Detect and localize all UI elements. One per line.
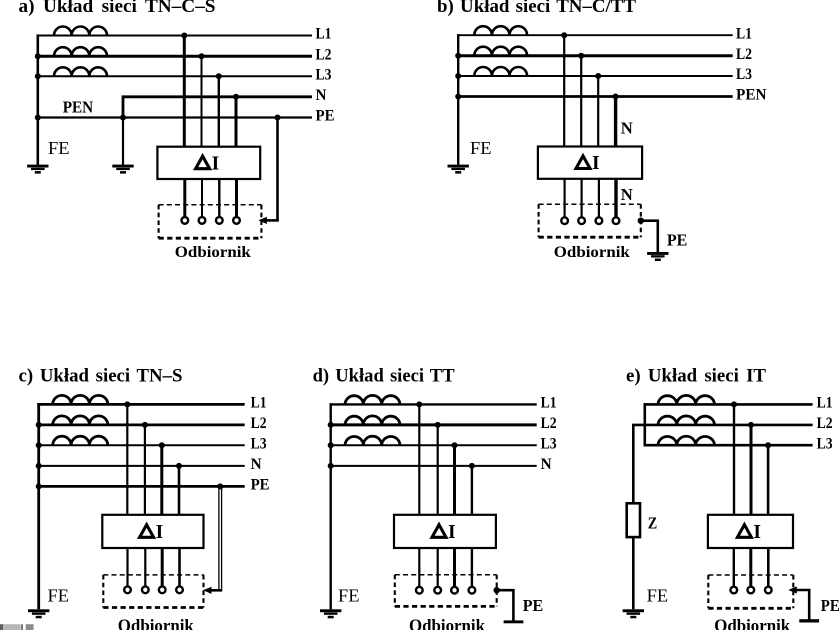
scan artifact tick 2 [26,624,34,630]
wire load lead 4 (d) [471,548,473,587]
wire PE to earth (b) [641,221,658,253]
terminal circle 3 (e) [765,587,772,594]
RCD symbol deltaI (e) [737,525,751,538]
wire L3 row (b) [457,75,733,77]
junction dot L2/left bus (a) [35,53,41,59]
wire: left bus vertical (d) [330,403,332,609]
wire L3 drop to RCD (c) [160,445,163,515]
RCD box dI (d) [394,515,496,548]
scan artifact tick 1 [21,624,23,630]
svg-text:Odbiornik: Odbiornik [554,244,630,261]
RCD box dI (c) [102,515,203,548]
wire load lead 3 (c) [161,548,164,586]
arrow PE into load (c) [203,587,212,594]
RCD symbol deltaI (c) [140,525,154,538]
wire load lead 4 (c) [178,548,181,586]
svg-text:I: I [448,522,456,543]
wire: star-point vertical (e) [643,403,646,445]
wire load lead 4 (b) [614,179,617,218]
ground symbol PEN (a) [112,165,133,174]
diagram b: Uklad sieci TN-C/TT [437,0,767,261]
RCD box dI (b) [538,147,642,179]
svg-text:N: N [621,119,634,138]
svg-text:L1: L1 [736,25,752,42]
winding L2 (d) [345,416,400,425]
wire: left bus vertical (b) [457,34,459,165]
wire load lead 3 (a) [218,179,220,217]
wire L3 drop to RCD (a) [218,76,220,146]
junction dot L3 tap (a) [216,73,222,79]
junction dot L1 tap (c) [124,401,130,407]
svg-text:L3: L3 [251,435,267,452]
wire load lead 3 (b) [598,179,600,218]
junction dot L2/left bus (d) [328,422,334,428]
svg-text:FE: FE [48,586,70,606]
svg-text:a) Układ sieci TN–C–S: a) Układ sieci TN–C–S [19,0,216,17]
wire L3 row (d) [330,444,537,446]
ground symbol FE (d) [320,609,341,618]
wire L2 drop to RCD (a) [201,56,203,147]
load dashed box Odbiornik (b) [539,204,641,237]
winding L2 (a) [54,47,107,56]
wire L2 drop to RCD (d) [437,425,439,515]
junction dot N tap (c) [176,463,182,469]
junction dot L2/left bus (b) [455,53,461,59]
terminal circle 4 (b) [613,217,620,224]
wire N drop to RCD (a) [235,97,238,147]
junction dot PE at load edge (b) [638,218,644,224]
terminal circle 2 (b) [578,217,585,224]
wire PE drop (a) [276,118,279,221]
svg-text:L1: L1 [817,395,833,412]
wire L2 drop to RCD (e) [750,425,753,515]
wire L1 drop to RCD (b) [563,35,565,146]
terminal circle 3 (a) [216,217,223,224]
wire load lead 4 (a) [235,179,238,217]
load dashed box Odbiornik (d) [395,575,497,607]
svg-text:I: I [212,153,220,174]
wire N row (d) [330,465,537,467]
svg-text:L3: L3 [541,435,557,452]
svg-text:c) Układ sieci TN–S: c) Układ sieci TN–S [19,366,183,386]
terminal circle 3 (b) [596,217,603,224]
wire PEN row (a) [37,116,313,118]
terminal circle 4 (d) [469,587,476,594]
wire PE drop double line (c) [218,486,220,590]
wire PEN earth branch (a) [122,118,124,165]
winding L1 (c) [53,395,108,404]
svg-text:Odbiornik: Odbiornik [409,616,485,630]
svg-text:I: I [592,153,600,174]
junction dot PEN tap (b) [613,94,619,100]
svg-text:N: N [621,185,634,204]
wire load lead 2 (c) [144,548,146,586]
load dashed box Odbiornik (e) [708,575,793,608]
svg-text:L3: L3 [817,435,833,452]
wire PE into load (c) [210,589,223,592]
ground symbol PE (d) [504,620,524,623]
winding L3 (d) [345,436,400,445]
junction dot L3/left bus (c) [36,442,42,448]
wire L3 drop to RCD (b) [597,76,599,147]
ground symbol FE (e) [623,609,644,618]
wire L1 drop to RCD (a) [183,36,186,147]
wire L1 row (d) [330,403,537,405]
wire L3 row (a) [37,75,313,77]
svg-text:N: N [251,456,262,473]
junction dot PE tap (a) [275,115,281,121]
wire L1 drop to RCD (e) [733,404,735,514]
winding L3 (b) [474,67,527,76]
wire PEN drop to RCD (b) [614,97,617,147]
wire L3 drop to RCD (d) [453,445,456,515]
diagram a: Uklad sieci TN-C-S [19,0,335,261]
svg-text:Odbiornik: Odbiornik [175,244,251,261]
RCD symbol deltaI (a) [196,156,210,169]
svg-text:L2: L2 [251,415,267,432]
terminal circle 2 (a) [199,217,206,224]
wire PE into load (a) [266,219,278,222]
svg-text:Odbiornik: Odbiornik [714,616,790,630]
svg-text:L1: L1 [316,26,332,43]
ground symbol PE (e) [799,619,819,622]
junction dot L1 tap (b) [561,32,567,38]
arrow PE into load (a) [258,217,267,224]
junction dot L3/left bus (d) [328,442,334,448]
junction dot L3/left bus (a) [35,73,41,79]
wire L1 row (e) [644,403,813,406]
junction dot N/left bus (c) [36,463,42,469]
junction dot PE tap (c) [217,483,223,489]
junction dot L2/left bus (c) [36,422,42,428]
junction dot L2 tap (a) [199,53,205,59]
terminal circle 3 (c) [159,586,166,593]
junction dot L2 tap (d) [435,422,441,428]
RCD box dI (a) [157,147,260,179]
load dashed box Odbiornik (a) [159,205,262,238]
wire L2 drop to RCD (b) [580,56,582,147]
ground symbol FE (c) [28,609,49,618]
wire L2 row (d) [330,423,537,426]
terminal circle 1 (d) [416,587,423,594]
svg-text:e) Układ sieci IT: e) Układ sieci IT [626,366,767,386]
junction dot L3 tap (e) [765,442,771,448]
RCD symbol deltaI (d) [432,525,446,538]
scan artifact bottom-left light bar [3,624,21,630]
arrow PE into load (e) [788,586,797,593]
winding L3 (c) [53,436,108,445]
svg-text:PEN: PEN [736,87,767,104]
wire N branch from PEN (a) [123,97,312,118]
terminal circle 1 (e) [730,587,737,594]
winding L2 (e) [658,416,715,425]
diagram c: Uklad sieci TN-S [19,366,270,630]
wire load lead 3 (e) [767,548,770,587]
svg-text:L3: L3 [316,67,332,84]
junction dot L1 tap (d) [416,401,422,407]
junction dot L1 tap (e) [731,401,737,407]
wire L2 row (b) [457,54,733,57]
wire PE to earth (d) [497,590,514,621]
wire load lead 1 (b) [563,179,565,218]
svg-text:Odbiornik: Odbiornik [118,616,194,630]
winding L1 (a) [54,26,107,35]
wire load lead 1 (d) [418,548,420,587]
svg-text:L2: L2 [736,46,752,63]
winding L3 (a) [54,67,107,76]
wire L3 row (e) [644,444,813,447]
svg-text:FE: FE [48,138,70,158]
terminal circle 1 (a) [181,217,188,224]
impedance Z box (e) [627,503,640,537]
load dashed box Odbiornik (c) [103,575,203,608]
wire load lead 1 (a) [183,179,186,217]
winding L2 (b) [474,47,527,56]
wire L1 drop to RCD (d) [418,404,420,514]
svg-text:I: I [156,522,164,543]
RCD box dI (e) [708,515,793,548]
wire impedance lead upper (e) [632,425,635,503]
svg-text:PE: PE [316,108,335,125]
wire L1 row (c) [37,403,244,406]
svg-text:I: I [753,522,761,543]
wire load lead 3 (d) [453,548,456,587]
junction dot PEN/left bus (a) [35,115,41,121]
junction dot PEN/left bus (b) [455,94,461,100]
wire load lead 2 (d) [437,548,439,587]
terminal circle 1 (b) [561,217,568,224]
winding L3 (e) [658,436,715,445]
junction dot L3/left bus (b) [455,73,461,79]
diagram d: Uklad sieci TT [313,366,557,630]
wire load lead 1 (c) [126,548,128,586]
wire N drop to RCD (d) [471,466,473,515]
wire PEN row (b) [457,95,733,98]
junction dot PE/left bus (c) [36,483,42,489]
wire L1 row (a) [37,35,313,37]
ground symbol FE (b) [448,165,469,174]
junction dot L3 tap (b) [595,73,601,79]
junction dot L2 tap (b) [578,53,584,59]
junction dot N tap (a) [233,94,239,100]
wire L2 drop to RCD (c) [144,425,146,515]
junction dot L2 tap (c) [142,422,148,428]
svg-text:L2: L2 [817,415,833,432]
winding L1 (b) [474,26,527,35]
terminal circle 4 (a) [233,217,240,224]
svg-text:PE: PE [821,596,840,615]
wire load lead 2 (e) [749,548,752,587]
terminal circle 2 (c) [142,586,149,593]
svg-text:N: N [316,87,327,104]
wire N row (c) [37,465,244,467]
terminal circle 3 (d) [451,587,458,594]
wire N drop to RCD (c) [178,466,181,515]
svg-text:PE: PE [667,230,688,249]
wire load lead 2 (b) [580,179,582,218]
svg-text:PEN: PEN [63,98,94,117]
winding L1 (e) [658,395,715,404]
winding L1 (d) [345,395,400,404]
svg-text:N: N [541,456,552,473]
junction dot PE at load edge (d) [494,587,500,593]
junction dot N/left bus (d) [328,463,334,469]
wire: left bus vertical (a) [36,34,39,164]
svg-text:FE: FE [647,586,669,606]
diagram e: Uklad sieci IT [623,366,840,630]
junction dot L1 tap (a) [181,33,187,39]
junction dot PEN split (a) [120,115,126,121]
wire L2 row (e) [632,424,813,427]
junction dot L3 tap (d) [452,442,458,448]
terminal circle 1 (c) [124,586,131,593]
ground symbol PE (b) [647,252,668,261]
ground symbol FE (a) [27,165,48,174]
wire PE to earth (e) [796,590,809,620]
svg-text:PE: PE [523,596,544,615]
wire L2 row (c) [37,423,244,426]
svg-text:PE: PE [251,477,270,494]
svg-text:L1: L1 [541,395,557,412]
svg-text:FE: FE [470,138,492,158]
wire PE row (c) [37,485,244,488]
RCD symbol deltaI (b) [576,156,590,169]
winding L2 (c) [53,416,108,425]
svg-text:L2: L2 [541,415,557,432]
wire L3 row (c) [37,444,244,446]
wire PE drop double line 2 (c) [221,486,223,590]
junction dot L2 tap (e) [748,422,754,428]
svg-text:FE: FE [338,586,360,606]
svg-text:L2: L2 [316,46,332,63]
wire: left bus vertical (c) [37,403,40,609]
wire L1 row (b) [457,34,733,36]
terminal circle 4 (c) [176,586,183,593]
wire L2 row (a) [37,55,313,58]
wire impedance lead lower (e) [632,537,635,609]
svg-text:L1: L1 [251,395,267,412]
junction dot N tap (d) [469,463,475,469]
wire L1 drop to RCD (c) [126,404,128,514]
wire L3 drop to RCD (e) [767,445,770,515]
wire load lead 1 (e) [733,548,735,587]
svg-text:d) Układ sieci TT: d) Układ sieci TT [313,366,456,386]
terminal circle 2 (d) [434,587,441,594]
terminal circle 2 (e) [747,587,754,594]
junction dot L3 tap (c) [159,442,165,448]
svg-text:b) Układ sieci TN–C/TT: b) Układ sieci TN–C/TT [437,0,637,17]
svg-text:Z: Z [648,514,658,533]
svg-text:L3: L3 [736,66,752,83]
wire load lead 2 (a) [201,179,203,217]
scan artifact bottom-left grey bar [0,624,3,630]
